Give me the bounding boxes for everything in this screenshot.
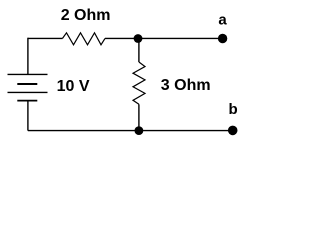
wire from battery bottom plate down to bottom wire bbox=[27, 101, 29, 131]
resistor R1 zigzag (2 Ohm) bbox=[63, 33, 106, 45]
svg-text:a: a bbox=[218, 12, 227, 29]
wire from resistor R1 to node junction and terminal a bbox=[105, 37, 223, 39]
wire bottom horizontal from junction to terminal b bbox=[139, 130, 233, 132]
wire from resistor R2 down to bottom junction bbox=[138, 104, 140, 130]
wire top-left horizontal from battery corner to resistor R1 bbox=[28, 37, 63, 39]
svg-text:b: b bbox=[229, 101, 238, 118]
battery V1 third plate (long) bbox=[8, 91, 48, 93]
battery V1 top plate (long) bbox=[8, 73, 48, 75]
wire bottom horizontal from battery to bottom junction bbox=[28, 130, 139, 132]
wire left vertical from top wire down to battery top plate bbox=[27, 38, 29, 75]
svg-text:2 Ohm: 2 Ohm bbox=[61, 7, 111, 24]
battery V1 second plate (short thick) bbox=[17, 83, 37, 85]
svg-text:10 V: 10 V bbox=[57, 78, 90, 95]
battery V1 fourth plate (short) bbox=[17, 100, 37, 102]
wire branch stub from top junction down to resistor R2 bbox=[138, 38, 140, 62]
terminal a (dot) bbox=[218, 34, 227, 43]
terminal b (dot) bbox=[228, 126, 238, 136]
node junction top (dot) bbox=[134, 34, 143, 43]
resistor R2 zigzag (3 Ohm) bbox=[133, 62, 145, 104]
svg-text:3 Ohm: 3 Ohm bbox=[161, 77, 211, 94]
node junction bottom (dot) bbox=[135, 126, 144, 135]
